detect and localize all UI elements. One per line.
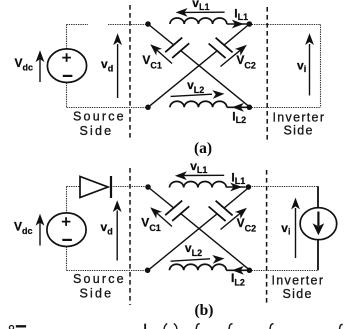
current source (b) (300, 208, 337, 240)
svg-text:vL1: vL1 (192, 0, 209, 12)
diode D (b) (80, 177, 108, 198)
svg-text:Source: Source (73, 110, 126, 124)
voltage arrow vd (a) (117, 44, 119, 98)
svg-text:Inverter: Inverter (273, 110, 326, 124)
wire: (a) inverter side right loop (320, 25, 322, 108)
voltage arrow VC2 (a) (221, 49, 242, 66)
svg-text:vL2: vL2 (185, 241, 202, 258)
current source arrow (b) (317, 212, 319, 227)
wire: (b) inverter branch top (317, 186, 319, 270)
svg-text:VC2: VC2 (236, 53, 256, 70)
capacitor C2 (a) (209, 38, 233, 58)
caption fragment: ascender top 3 (270, 324, 274, 329)
wire: (b) bottom rail source side (67, 270, 149, 272)
capacitor C1 (a) (165, 38, 189, 58)
svg-text:Side: Side (80, 287, 114, 301)
svg-text:IL2: IL2 (232, 109, 246, 125)
voltage arrow vL1 (a) (184, 11, 225, 13)
voltage source Vdc (b) (47, 213, 86, 247)
caption fragment: ascender top 4 (340, 324, 343, 329)
svg-text:vi: vi (297, 59, 306, 75)
voltage arrow vL1 (b) (183, 174, 224, 176)
capacitor C1 (b) (165, 201, 189, 221)
dashed boundary: (b) source side / Z-network (129, 168, 131, 305)
minus terminal of Vdc (a) (63, 75, 73, 77)
dashed boundary: (a) source side / Z-network (129, 5, 131, 141)
svg-text:VC1: VC1 (141, 216, 161, 233)
inductor L1 (b) (170, 182, 227, 188)
node: (b) top-left junction (145, 184, 151, 190)
diagonal wire: (a) top-left node to bottom-right node (148, 24, 249, 107)
svg-text:Source: Source (73, 272, 126, 286)
dashed boundary: (b) Z-network / inverter side (266, 170, 268, 303)
svg-text:VC1: VC1 (142, 53, 162, 70)
svg-text:vL1: vL1 (190, 159, 207, 175)
wire: (b) top rail source corner to diode (67, 186, 81, 188)
wire: (b) source branch vertical (66, 187, 68, 271)
minus terminal of Vdc (b) (62, 239, 72, 241)
node: (b) bottom-left junction (145, 268, 151, 274)
svg-text:VC2: VC2 (237, 216, 257, 233)
svg-text:Side: Side (283, 287, 313, 301)
inductor L2 (a) (170, 101, 227, 107)
capacitor C2 (b) (209, 201, 233, 221)
current arrow IL2 (b) (226, 269, 247, 271)
voltage arrow VC2 (b) (221, 212, 242, 229)
plus terminal of Vdc (b) (62, 217, 71, 226)
current arrow IL1 (b) (226, 186, 245, 188)
diagonal wire: (b) top-left node to bottom-right node (148, 187, 249, 270)
wire: (b) bottom rail inverter side (249, 270, 318, 272)
svg-text:Side: Side (80, 124, 114, 138)
current arrow IL1 (a) (227, 23, 247, 25)
diagonal wire: (b) bottom-left node to top-right node (148, 187, 249, 270)
caption fragment: close parenthesis top (174, 323, 177, 329)
voltage arrow VC1 (a) (156, 49, 173, 64)
wire: (b) top rail Z to inverter (249, 186, 318, 188)
node: (a) top-right junction (247, 21, 253, 27)
voltage arrow vi (a) (309, 44, 311, 96)
node: (a) top-left junction (145, 21, 151, 27)
wire: (a) source branch vertical (66, 25, 68, 108)
voltage arrow vL2 (a) (171, 94, 212, 96)
voltage arrow vd (b) (116, 211, 118, 261)
inductor L2 (b) (170, 264, 227, 270)
svg-text:vd: vd (101, 57, 113, 74)
current arrow IL2 (a) (227, 106, 248, 108)
wire: (a) top rail Z to inverter (249, 24, 320, 26)
node: (b) top-right junction (246, 184, 252, 190)
svg-text:vL2: vL2 (187, 78, 204, 95)
wire: (a) bottom rail source side (67, 107, 149, 109)
svg-text:Side: Side (284, 124, 314, 138)
svg-text:(a): (a) (194, 140, 212, 157)
plus terminal of Vdc (a) (62, 53, 71, 62)
wire: (b) top rail diode to left node (111, 186, 148, 188)
svg-text:Vdc: Vdc (14, 219, 33, 236)
wire: (a) top rail from source corner (67, 24, 89, 26)
inductor L1 (a) (170, 18, 227, 24)
wire: (a) top rail into Z-network after gap (108, 24, 148, 26)
caption fragment: ascender top 2 (229, 324, 233, 329)
svg-text:IL1: IL1 (234, 6, 248, 22)
caption fragment: letter stem (144, 324, 146, 329)
caption fragment: Z top bar (16, 325, 26, 327)
node: (a) bottom-right junction (247, 105, 253, 111)
diagonal wire: (a) bottom-left node to top-right node (148, 24, 249, 107)
svg-text:vd: vd (101, 220, 113, 237)
svg-text:Inverter: Inverter (272, 274, 325, 288)
voltage arrow vL2 (b) (171, 259, 210, 261)
caption fragment: letter o top (9, 326, 13, 329)
svg-text:IL1: IL1 (231, 170, 245, 186)
svg-text:Vdc: Vdc (15, 56, 34, 73)
svg-text:(b): (b) (195, 302, 214, 319)
dashed boundary: (a) Z-network / inverter side (266, 7, 268, 140)
svg-text:vi: vi (281, 221, 290, 237)
voltage arrow Vdc (b) (39, 222, 41, 246)
voltage source Vdc (a) (47, 49, 86, 83)
wire: (a) bottom rail inverter side (249, 107, 320, 109)
voltage arrow VC1 (b) (156, 212, 173, 227)
node: (b) bottom-right junction (247, 268, 253, 274)
voltage arrow Vdc (a) (39, 58, 41, 82)
voltage arrow vi (b) (295, 208, 297, 258)
node: (a) bottom-left junction (145, 105, 151, 111)
caption fragment: open parenthesis top (164, 323, 167, 329)
caption fragment: ascender top 1 (196, 324, 200, 329)
